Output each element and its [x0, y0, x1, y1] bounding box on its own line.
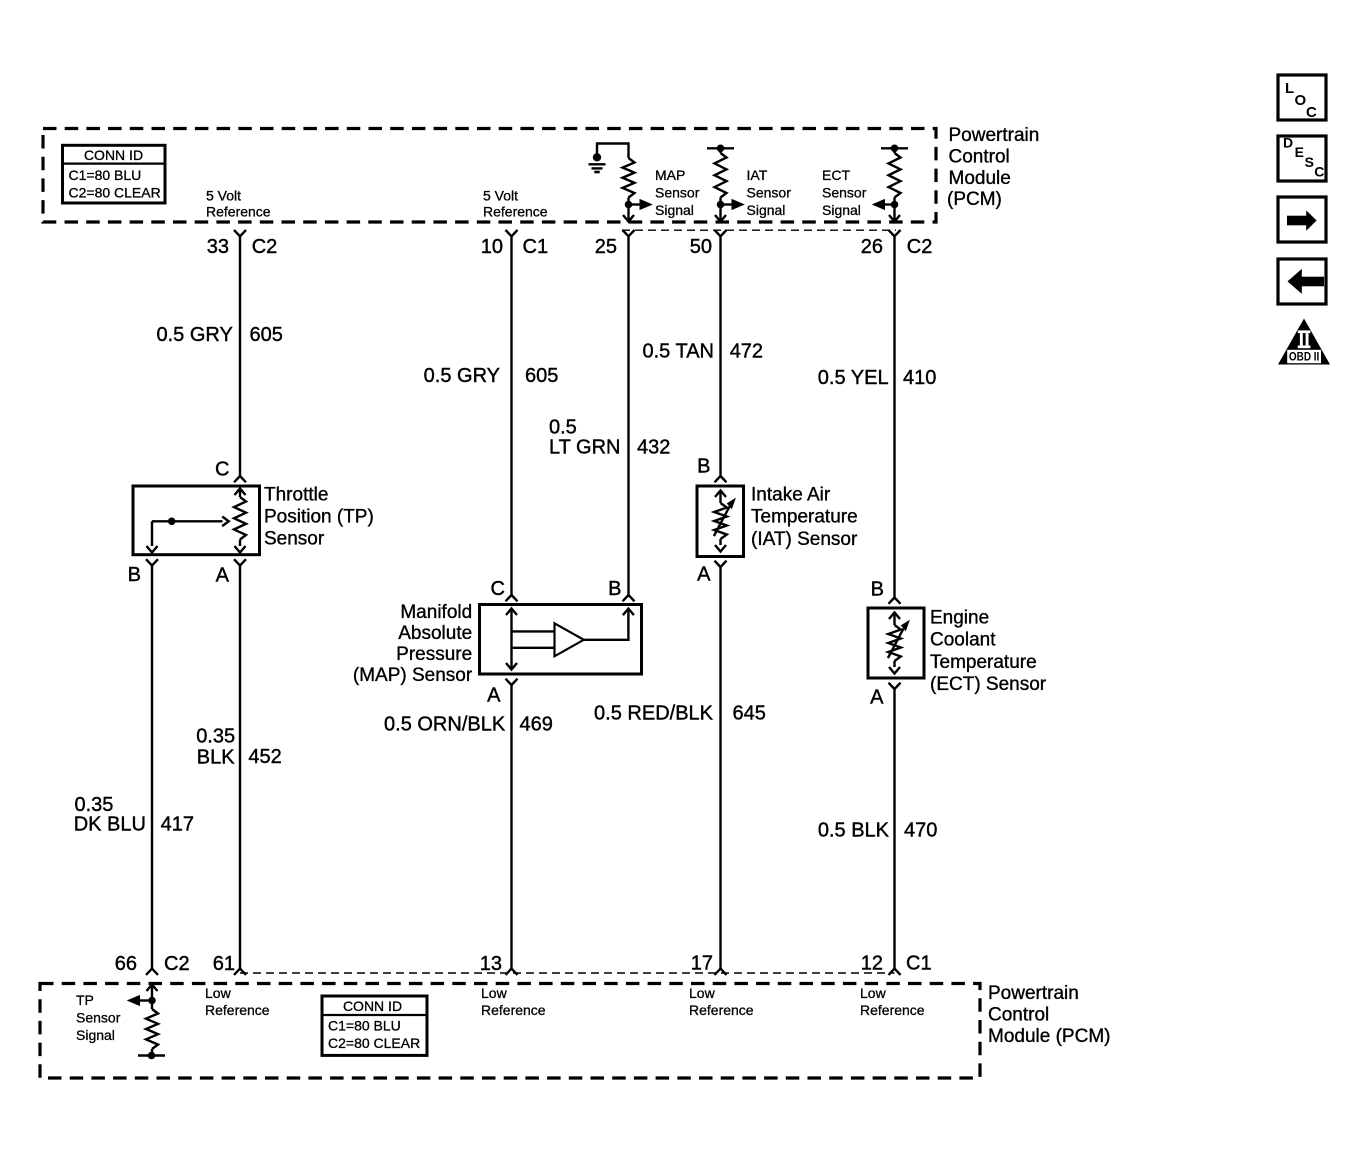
svg-text:0.5 ORN/BLK: 0.5 ORN/BLK — [384, 714, 506, 736]
svg-text:CONN ID: CONN ID — [84, 147, 143, 163]
svg-text:0.5 BLK: 0.5 BLK — [818, 820, 890, 842]
svg-text:417: 417 — [161, 814, 194, 836]
svg-text:66: 66 — [115, 953, 137, 975]
svg-text:B: B — [871, 579, 884, 601]
svg-text:D: D — [1283, 134, 1293, 150]
svg-text:645: 645 — [733, 703, 766, 725]
MAP sensor box outline — [480, 605, 642, 675]
resistor TP signal pull-up (in PCM) — [146, 1001, 158, 1056]
thermistor IAT sensing element — [714, 491, 735, 552]
svg-text:C1=80 BLU: C1=80 BLU — [69, 167, 142, 183]
svg-text:26: 26 — [861, 236, 883, 258]
IAT sensor box outline — [697, 486, 744, 557]
wire 605 GRY pin33 to TP sensor C — [234, 236, 246, 482]
svg-text:DK BLU: DK BLU — [74, 814, 146, 836]
wire resistor to node ECT signal — [893, 198, 895, 209]
svg-text:470: 470 — [904, 820, 937, 842]
svg-text:472: 472 — [730, 341, 763, 363]
wire 5V bus stub above IAT pull-up resistor — [707, 147, 734, 149]
connector C1 in-line boundary (thin dashed, pins 61-13-17-12) — [240, 972, 895, 974]
arrow TP Sensor Signal (points left) — [128, 996, 152, 1006]
svg-text:C1: C1 — [906, 952, 932, 974]
svg-text:O: O — [1295, 92, 1307, 109]
CONN ID table (top): C1=80 BLU / C2=80 CLEAR — [63, 145, 166, 203]
svg-text:C: C — [215, 459, 229, 481]
svg-text:C2=80 CLEAR: C2=80 CLEAR — [69, 185, 161, 201]
connector TP pin A (sensor side) — [234, 559, 246, 565]
svg-text:452: 452 — [248, 746, 281, 768]
svg-text:C1: C1 — [523, 236, 549, 258]
wire 417 DK BLU TP B to pin 66 — [146, 566, 158, 975]
svg-text:C2: C2 — [252, 236, 278, 258]
thermistor ECT sensing element — [888, 613, 909, 674]
resistor IAT sensor pull-up (in PCM) — [715, 148, 727, 197]
PCM module top dashed boundary box — [43, 129, 936, 223]
connector C2 in-line boundary (thin dashed, pins 25-50-26) — [622, 229, 896, 231]
icon OBD II triangle badge — [1278, 319, 1330, 365]
svg-text:B: B — [128, 564, 141, 586]
svg-text:B: B — [697, 456, 710, 478]
arrow MAP Sensor Signal (points right) — [629, 200, 652, 210]
svg-text:A: A — [487, 685, 501, 707]
wire MAP signal to pin 25 with arrow — [623, 205, 634, 222]
TP sensor box outline — [133, 486, 260, 555]
icon button prev-page (left arrow) — [1278, 259, 1326, 304]
svg-text:CONN ID: CONN ID — [343, 998, 402, 1014]
svg-text:12: 12 — [861, 952, 883, 974]
wire 5V bus stub above ECT pull-up resistor — [881, 147, 908, 149]
svg-text:0.35: 0.35 — [196, 726, 235, 748]
svg-text:A: A — [697, 564, 711, 586]
icon button DESC — [1278, 134, 1326, 181]
op-amp MAP sensor amplifier triangle — [555, 623, 584, 656]
connector pin 50 female half (PCM side) — [715, 230, 727, 236]
connector TP pin B (sensor side) — [146, 559, 158, 565]
svg-text:C: C — [491, 578, 505, 600]
connector pin 26 female half (PCM side) — [889, 230, 901, 236]
svg-text:C2: C2 — [907, 236, 933, 258]
junction IAT pullup to 5V — [717, 145, 725, 153]
icon button LOC — [1278, 75, 1326, 121]
wire 469 ORN/BLK MAP A to pin 13 — [506, 685, 518, 975]
ECT sensor box outline — [868, 608, 924, 678]
svg-text:61: 61 — [213, 953, 235, 975]
svg-text:0.5 TAN: 0.5 TAN — [642, 341, 714, 363]
connector MAP pin A (sensor side) — [506, 679, 518, 685]
connector pin 33 female half (PCM side) — [234, 230, 246, 236]
svg-text:E: E — [1295, 144, 1304, 160]
svg-text:17: 17 — [691, 952, 713, 974]
svg-text:B: B — [608, 578, 621, 600]
connector pin 10 female half (PCM side) — [506, 230, 518, 236]
junction node MAP signal — [625, 201, 633, 209]
MAP sensor internal branch wires to amplifier — [512, 631, 555, 647]
svg-text:33: 33 — [207, 236, 229, 258]
wire 432 LT GRN pin25 to MAP sensor B — [623, 236, 635, 601]
arrow ECT Sensor Signal (points left) — [873, 200, 895, 210]
junction node IAT signal — [717, 201, 725, 209]
wire 605 GRY pin10 to MAP sensor C — [506, 236, 518, 601]
icon button next-page (right arrow) — [1278, 197, 1326, 242]
PCM module bottom dashed boundary box — [40, 984, 980, 1079]
svg-text:S: S — [1305, 154, 1314, 170]
CONN ID table (bottom): C1=80 BLU / C2=80 CLEAR — [322, 996, 427, 1055]
wire resistor to node IAT signal — [719, 198, 721, 209]
svg-text:C1=80 BLU: C1=80 BLU — [328, 1018, 401, 1034]
svg-text:13: 13 — [480, 953, 502, 975]
wire 410 YEL pin26 to ECT sensor B — [889, 236, 901, 604]
svg-text:410: 410 — [903, 367, 936, 389]
svg-text:L: L — [1285, 80, 1294, 97]
wire pin 66 into PCM with arrow — [147, 985, 158, 1001]
ground symbol (MAP sensor ground reference in PCM) — [589, 153, 606, 172]
svg-text:0.5 GRY: 0.5 GRY — [156, 324, 232, 346]
wire ECT signal to pin 26 with arrow — [889, 205, 900, 222]
svg-text:25: 25 — [595, 236, 617, 258]
connector pin 25 female half (PCM side) — [623, 230, 635, 236]
svg-text:432: 432 — [637, 437, 670, 459]
resistor ECT sensor pull-up (in PCM) — [889, 148, 901, 197]
svg-text:0.5 GRY: 0.5 GRY — [424, 365, 500, 387]
svg-text:605: 605 — [525, 365, 558, 387]
junction node ECT signal — [891, 201, 899, 209]
wire 645 RED/BLK IAT A to pin 17 — [715, 567, 727, 975]
svg-text:605: 605 — [250, 324, 283, 346]
wire resistor to node MAP signal — [627, 198, 629, 209]
wire 452 BLK TP A to pin 61 — [234, 566, 246, 975]
wire 472 TAN pin50 to IAT sensor B — [715, 236, 727, 482]
junction node TP signal — [148, 997, 156, 1005]
resistor MAP sensor pull-up (in PCM) — [623, 158, 635, 198]
svg-text:0.5 RED/BLK: 0.5 RED/BLK — [594, 703, 714, 725]
svg-text:50: 50 — [690, 236, 712, 258]
svg-text:10: 10 — [481, 236, 503, 258]
junction ECT pullup to 5V — [891, 145, 899, 153]
wire TP signal resistor termination bar — [138, 1054, 165, 1056]
junction TP resistor to bus — [148, 1052, 156, 1060]
potentiometer TP sensor resistive element — [234, 489, 246, 553]
MAP sensor internal input line (pins C-A) — [506, 609, 517, 670]
svg-text:469: 469 — [520, 714, 553, 736]
connector IAT pin A (sensor side) — [715, 561, 727, 567]
wire IAT signal to pin 50 with arrow — [715, 205, 726, 222]
arrow IAT Sensor Signal (points right) — [721, 200, 744, 210]
svg-text:A: A — [870, 687, 884, 709]
svg-text:C: C — [1306, 104, 1317, 121]
svg-text:0.5 YEL: 0.5 YEL — [818, 367, 889, 389]
svg-text:OBD II: OBD II — [1289, 350, 1319, 364]
wire ground to MAP pullup resistor — [597, 144, 629, 159]
svg-text:C: C — [1314, 164, 1324, 180]
svg-text:LT GRN: LT GRN — [549, 437, 621, 459]
MAP sensor output wire to pin B — [584, 609, 634, 640]
svg-text:A: A — [216, 564, 230, 586]
svg-text:BLK: BLK — [197, 747, 235, 769]
svg-text:C2=80 CLEAR: C2=80 CLEAR — [328, 1035, 420, 1051]
connector ECT pin A (sensor side) — [889, 683, 901, 689]
wire 470 BLK ECT A to pin 12 — [889, 689, 901, 975]
potentiometer TP wiper arm — [147, 517, 229, 553]
svg-text:C2: C2 — [164, 953, 190, 975]
svg-text:0.5: 0.5 — [549, 417, 577, 439]
